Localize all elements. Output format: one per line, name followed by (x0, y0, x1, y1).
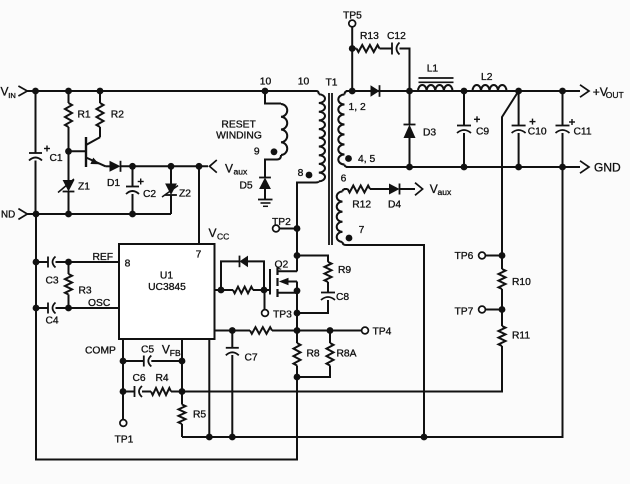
svg-text:L1: L1 (427, 64, 439, 75)
svg-text:7: 7 (196, 250, 202, 261)
svg-text:Z2: Z2 (179, 189, 191, 200)
svg-text:TP7: TP7 (455, 307, 474, 318)
svg-text:TP5: TP5 (343, 11, 362, 22)
svg-text:ND: ND (1, 210, 15, 221)
svg-text:C2: C2 (143, 189, 156, 200)
svg-text:V: V (162, 343, 170, 357)
svg-text:U1: U1 (160, 271, 173, 282)
svg-text:Z1: Z1 (78, 182, 90, 193)
svg-text:C3: C3 (46, 276, 59, 287)
svg-text:R9: R9 (338, 265, 351, 276)
svg-text:GND: GND (594, 161, 621, 175)
svg-text:D4: D4 (388, 200, 401, 211)
svg-text:TP2: TP2 (272, 217, 291, 228)
svg-text:UC3845: UC3845 (148, 282, 186, 293)
svg-text:TP4: TP4 (373, 327, 392, 338)
svg-text:R12: R12 (352, 200, 371, 211)
svg-text:R5: R5 (193, 410, 206, 421)
svg-text:R3: R3 (79, 286, 92, 297)
svg-text:OSC: OSC (88, 298, 111, 309)
svg-text:C12: C12 (387, 31, 406, 42)
svg-text:R10: R10 (512, 277, 531, 288)
svg-text:R4: R4 (156, 373, 169, 384)
svg-text:aux: aux (438, 187, 452, 197)
svg-text:V: V (225, 162, 233, 176)
svg-text:R1: R1 (78, 110, 91, 121)
svg-text:TP3: TP3 (273, 310, 292, 321)
svg-text:CC: CC (217, 232, 229, 242)
svg-text:TP6: TP6 (455, 251, 474, 262)
svg-text:R11: R11 (512, 331, 530, 342)
svg-text:D1: D1 (107, 178, 120, 189)
svg-text:OUT: OUT (606, 90, 624, 100)
svg-text:C8: C8 (336, 292, 349, 303)
svg-text:Q2: Q2 (275, 260, 289, 271)
svg-text:IN: IN (8, 91, 16, 100)
svg-text:8: 8 (298, 168, 304, 179)
svg-text:T1: T1 (325, 78, 337, 89)
svg-text:RESET: RESET (221, 120, 256, 131)
svg-text:D3: D3 (423, 128, 436, 139)
svg-text:COMP: COMP (85, 346, 116, 357)
svg-text:TP1: TP1 (115, 435, 134, 446)
svg-text:C11: C11 (574, 127, 592, 138)
svg-text:1, 2: 1, 2 (349, 102, 366, 113)
svg-text:R8A: R8A (337, 349, 357, 360)
svg-text:R8: R8 (307, 349, 320, 360)
svg-text:WINDING: WINDING (216, 131, 262, 142)
svg-text:REF: REF (93, 252, 114, 263)
svg-text:10: 10 (298, 77, 310, 88)
svg-text:D5: D5 (240, 181, 253, 192)
svg-text:9: 9 (254, 147, 260, 158)
svg-text:C6: C6 (133, 373, 146, 384)
svg-text:7: 7 (359, 225, 365, 236)
svg-text:4, 5: 4, 5 (358, 154, 375, 165)
svg-text:C4: C4 (46, 316, 59, 327)
svg-text:6: 6 (341, 174, 347, 185)
svg-text:C7: C7 (245, 353, 258, 364)
svg-text:10: 10 (260, 77, 272, 88)
svg-text:C5: C5 (141, 345, 154, 356)
svg-text:FB: FB (170, 348, 181, 358)
svg-text:8: 8 (125, 259, 131, 270)
svg-text:R2: R2 (111, 110, 124, 121)
svg-text:V: V (209, 226, 217, 240)
svg-text:L2: L2 (481, 72, 493, 83)
svg-text:R13: R13 (360, 31, 379, 42)
svg-text:C9: C9 (476, 127, 489, 138)
svg-text:aux: aux (234, 167, 248, 177)
svg-text:C10: C10 (528, 127, 547, 138)
svg-text:C1: C1 (50, 153, 63, 164)
